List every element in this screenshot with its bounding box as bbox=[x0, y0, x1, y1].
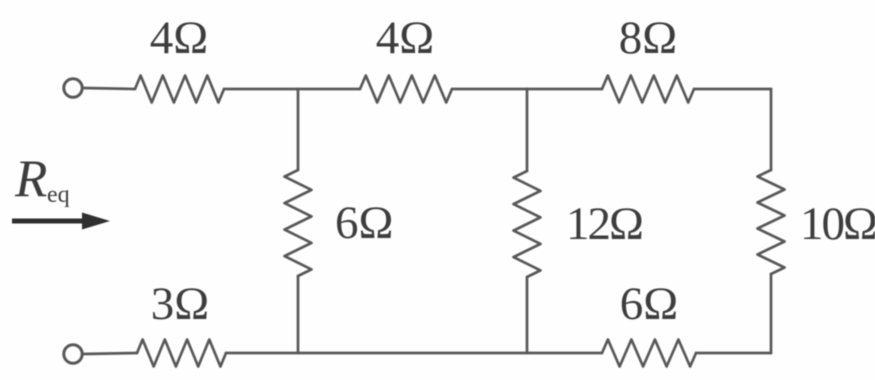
resistor 10ohm (vertical, right branch) bbox=[758, 170, 785, 274]
wire: 10ohm down to bottom-right corner bbox=[770, 274, 773, 353]
wire: 3ohm across node C to node D bbox=[226, 352, 602, 355]
wire: bottom 6ohm to bottom-right corner bbox=[696, 352, 771, 355]
wire: top-right corner down to 10ohm bbox=[770, 89, 773, 170]
resistor 4ohm (top middle) bbox=[360, 76, 452, 103]
resistor 6ohm (bottom right) bbox=[602, 340, 696, 367]
svg-text:R: R bbox=[14, 150, 47, 208]
wire: 4ohm to node A bbox=[224, 88, 298, 91]
wire: node B down to 12ohm bbox=[526, 89, 529, 171]
svg-text:4Ω: 4Ω bbox=[150, 12, 208, 64]
wire: bottom terminal to 3ohm resistor bbox=[84, 353, 137, 354]
svg-text:8Ω: 8Ω bbox=[619, 12, 677, 64]
arrow: Req direction indicator bbox=[12, 219, 86, 224]
resistor 4ohm (top left) bbox=[135, 76, 224, 103]
svg-text:3Ω: 3Ω bbox=[151, 278, 209, 330]
node B: junction top wire with 12ohm branch bbox=[527, 88, 602, 91]
svg-text:6Ω: 6Ω bbox=[620, 278, 678, 330]
svg-text:6Ω: 6Ω bbox=[335, 197, 393, 249]
node A: junction top wire with 6ohm branch bbox=[298, 88, 360, 91]
svg-text:10Ω: 10Ω bbox=[800, 198, 875, 250]
resistor 8ohm (top right) bbox=[602, 76, 694, 103]
wire: top terminal to 4ohm resistor bbox=[84, 88, 135, 89]
svg-text:4Ω: 4Ω bbox=[376, 12, 434, 64]
wire: node A down to 6ohm bbox=[297, 89, 300, 170]
wire: 4ohm to node B bbox=[452, 88, 527, 91]
terminal: top-left input (open circle) bbox=[64, 79, 82, 97]
resistor 12ohm (vertical, middle shunt) bbox=[514, 171, 541, 277]
svg-text:12Ω: 12Ω bbox=[566, 198, 642, 250]
terminal: bottom-left input (open circle) bbox=[64, 345, 82, 363]
svg-text:eq: eq bbox=[47, 182, 70, 208]
wire: 6ohm down to bottom node C bbox=[297, 276, 300, 353]
resistor 3ohm (bottom left) bbox=[137, 340, 226, 367]
wire: 12ohm down to bottom node D bbox=[526, 277, 529, 353]
resistor 6ohm (vertical, left shunt) bbox=[285, 170, 312, 276]
wire: 8ohm to top-right corner bbox=[694, 88, 771, 91]
